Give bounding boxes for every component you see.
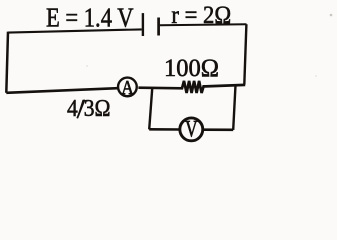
svg-text:A: A [121,77,134,99]
svg-text:V: V [185,117,198,142]
svg-text:100Ω: 100Ω [164,55,219,82]
svg-text:E = 1.4 V: E = 1.4 V [46,1,134,32]
svg-text:r = 2Ω: r = 2Ω [171,2,231,29]
svg-text:4/3Ω: 4/3Ω [67,96,111,122]
